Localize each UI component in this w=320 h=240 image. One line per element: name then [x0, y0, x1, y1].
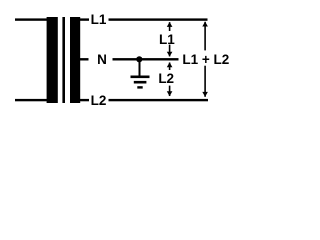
transformer T1 core line [62, 17, 65, 103]
transformer T1 secondary winding bar [70, 17, 80, 103]
wire: N line (secondary center tap lead) [80, 58, 179, 60]
wire: primary bottom lead [15, 99, 48, 101]
label gap for L1 arrow [158, 31, 183, 45]
junction dot on N line [136, 56, 142, 62]
svg-text:L2: L2 [91, 93, 107, 108]
dimension arrow: L1 + L2 voltage (between L1 line and L2 line) [202, 22, 208, 97]
dimension arrow: L1 voltage (between L1 line and N line) [167, 22, 173, 57]
svg-text:L1: L1 [159, 32, 175, 47]
svg-text:N: N [97, 52, 107, 67]
node: L1 label gap [89, 12, 109, 26]
wire: L1 line (secondary top lead) [80, 18, 208, 20]
dimension arrow: L2 voltage (between N line and L2 line) [167, 62, 173, 96]
wire: L2 line (secondary bottom lead) [80, 99, 209, 101]
node: N label gap [89, 52, 113, 66]
ground: bar 2 [134, 81, 147, 84]
wire: primary top lead [15, 18, 48, 20]
transformer T1 primary winding bar [47, 17, 58, 103]
svg-text:L1 + L2: L1 + L2 [182, 52, 229, 67]
ground: bar 3 [137, 86, 142, 88]
svg-text:L2: L2 [158, 71, 174, 86]
label gap for L2 arrow [158, 70, 183, 86]
svg-text:L1: L1 [91, 12, 107, 27]
ground: bar 1 [131, 76, 150, 79]
label gap for L1 + L2 arrow [182, 50, 229, 65]
ground: stub wire [139, 59, 141, 77]
node: L2 label gap [89, 94, 109, 108]
